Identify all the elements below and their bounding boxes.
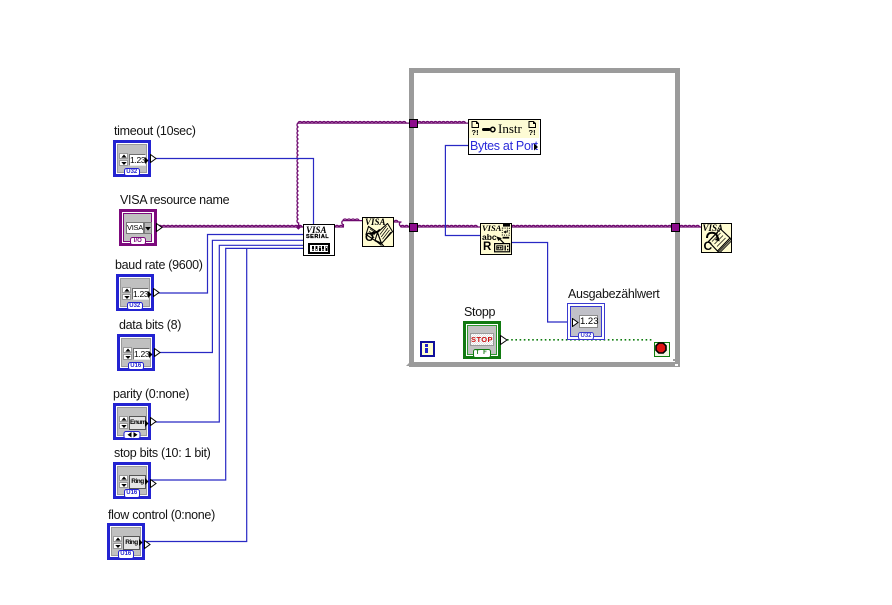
control terminal: timeout (10sec) U32: [113, 140, 151, 177]
tunnel: VISA wire into loop (top left): [409, 119, 418, 128]
control terminal: flow control ring: [107, 523, 145, 560]
node: VISA Configure Serial Port: [303, 224, 335, 256]
wire: VISA Read return count to Ausgabezaehlwert: [512, 243, 568, 323]
wire: property node Bytes at Port down to VISA Read byte count: [445, 146, 480, 236]
while loop border corner shadow bottom-right: [673, 359, 681, 362]
wire: stop bits to VISA SERIAL: [149, 248, 304, 480]
indicator terminal: Ausgabezaehlwert U32: [567, 303, 605, 340]
control terminal: Stopp boolean button: [463, 321, 501, 359]
wire: purple top run to left tunnel: [298, 122, 410, 124]
node: VISA Read: [480, 223, 512, 255]
tunnel: VISA wire into loop (mid left): [409, 223, 418, 232]
wire: data bits to VISA SERIAL: [153, 240, 304, 352]
label: VISA resource name: [120, 193, 229, 207]
wire: timeout to VISA SERIAL top: [151, 159, 314, 225]
wire: flow control riser joining stop-bits run: [143, 248, 247, 541]
wire: VISA SERIAL output step: [335, 219, 363, 227]
control terminal: baud rate (9600) U32: [116, 274, 154, 311]
label: flow control: [108, 508, 215, 522]
svg-text:?!: ?!: [472, 128, 479, 136]
svg-text:?!: ?!: [529, 128, 536, 136]
loop iteration terminal i: [420, 341, 435, 357]
node: VISA Open: [362, 217, 394, 248]
label: Stopp: [464, 305, 495, 319]
wire: baud rate to VISA SERIAL: [152, 235, 304, 294]
wire: parity to VISA SERIAL: [149, 245, 304, 422]
junction: VISA wire branch dot: [296, 224, 301, 229]
control terminal: data bits (8) U16: [117, 334, 155, 371]
wire: VISA Read to right tunnel: [512, 225, 672, 227]
node: property node (Instr / Bytes at Port): [468, 119, 541, 155]
label: parity: [113, 387, 189, 401]
wire: Stopp boolean dotted to loop condition terminal: [507, 339, 654, 341]
node: VISA Close: [701, 223, 732, 254]
wire: purple riser junction up to loop-left tunnel level: [297, 123, 299, 227]
control terminal: parity enum: [113, 403, 151, 440]
wire: purple top run inside loop to property node: [418, 122, 469, 124]
wire: right tunnel to VISA Close: [680, 225, 702, 227]
label: timeout: [114, 124, 196, 138]
wire: purple run tunnel to VISA Read: [418, 225, 481, 227]
control terminal: VISA resource name (I/O): [119, 209, 157, 246]
while loop border: [409, 68, 680, 367]
label: stop bits: [114, 446, 211, 460]
loop condition terminal (stop sign): [654, 342, 670, 357]
label: baud rate: [115, 258, 203, 272]
label: data bits: [119, 318, 181, 332]
wire: VISA Open output step to left-mid tunnel: [394, 220, 410, 227]
tunnel: VISA wire out of loop (right): [671, 223, 680, 232]
wire: VISA resource name to junction (purple squiggle): [158, 225, 304, 227]
control terminal: stop bits ring: [113, 462, 151, 499]
label: Ausgabezaehlwert: [568, 287, 659, 301]
while loop border corner bevel bottom-left: [406, 361, 411, 366]
